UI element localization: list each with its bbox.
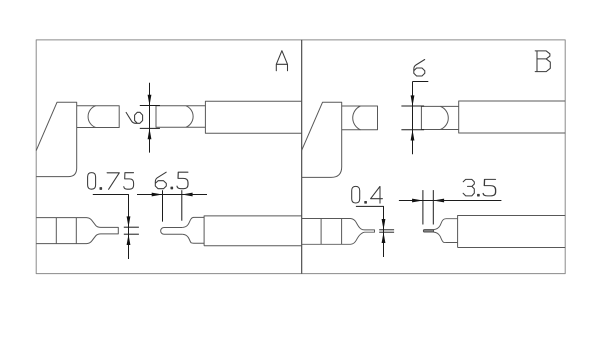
panel divider line (301, 40, 303, 274)
dimension 0.75 leader A (93, 195, 129, 260)
dimension 6 extension bottom B (401, 129, 424, 131)
spindle tip A (side view) (156, 106, 205, 127)
anvil holder division line 2 B (341, 219, 343, 245)
anvil holder division line 1 B (320, 219, 322, 245)
dimension 6 line A (149, 83, 151, 153)
dimension 6.5 line right A (182, 194, 207, 196)
spindle body A (top view) (204, 216, 302, 246)
dimension 0.4 arrow down B (382, 219, 386, 230)
dimension 3.5 arrow right B (412, 199, 423, 203)
dimension text 3.5 B (463, 179, 474, 196)
spindle tip arc A (186, 106, 193, 127)
spindle blade B (top view, filled) (423, 230, 433, 233)
micrometer frame section A (side view) (36, 102, 76, 176)
dimension 3.5 line right B (433, 200, 501, 202)
spindle blade A (top view, rounded end) (161, 228, 183, 235)
drawing border frame (36, 40, 565, 274)
dimension text 6 B (414, 60, 425, 77)
anvil tip B (side view) (342, 106, 378, 130)
dimension 0.4 extension bottom B (379, 231, 394, 233)
dimension 3.5 arrow left B (433, 199, 444, 203)
dimension 0.75 extension bottom A (124, 233, 139, 235)
dimension 0.4 arrow up B (382, 232, 386, 243)
spindle taper top B (434, 219, 458, 230)
spindle body B (side view) (459, 101, 566, 133)
micrometer frame section B (side view) (302, 102, 342, 177)
dimension 6 arrow down A (148, 95, 152, 106)
dimension 6 arrow up B (411, 130, 415, 141)
dimension 6 extension line top A (140, 105, 160, 107)
anvil tip A (side view) (77, 106, 120, 128)
dimension 6 arrow up A (148, 128, 152, 139)
dimension text 0.75 A (88, 173, 96, 190)
dimension 6 line B (412, 82, 414, 155)
dimension text 0.4 B (352, 186, 360, 203)
spindle body A (side view) (205, 101, 301, 133)
anvil tip arc B (353, 106, 361, 130)
dimension 0.4 leader B (356, 206, 384, 257)
dimension 0.4 extension top B (379, 229, 394, 231)
dimension 6 extension top B (401, 105, 424, 107)
anvil holder A (top view) (36, 218, 118, 244)
spindle tip arc B (440, 106, 448, 129)
dimension 6.5 arrow right A (152, 193, 163, 197)
label A (276, 51, 287, 71)
anvil holder B (top view) (302, 219, 375, 245)
dimension text 6 (rotated) A (126, 112, 143, 123)
dimension 3.5 extension line 2 B (432, 190, 434, 224)
dimension 0.75 extension top A (124, 226, 139, 228)
spindle taper bottom A (182, 234, 204, 243)
dimension 6.5 line left A (137, 194, 163, 196)
dimension 6.5 arrow left A (182, 193, 193, 197)
anvil tip arc A (88, 106, 96, 128)
spindle body B (top view) (458, 216, 566, 248)
label B (535, 51, 550, 72)
spindle taper bottom B (434, 232, 458, 242)
dimension 6 leader underline B (413, 81, 429, 83)
dimension 3.5 line middle B (423, 200, 433, 202)
dimension text 6.5 A (155, 172, 166, 189)
dimension 3.5 line left B (399, 200, 423, 202)
anvil holder division line 2 A (75, 218, 77, 244)
dimension 6 arrow down B (411, 95, 415, 106)
dimension 6.5 extension line 1 A (162, 190, 164, 221)
dimension 6 extension line bottom A (140, 127, 160, 129)
anvil holder division line 1 A (55, 218, 57, 244)
dimension 6.5 line middle A (163, 194, 182, 196)
dimension 6.5 extension line 2 A (181, 190, 183, 221)
dimension 3.5 extension line 1 B (422, 190, 424, 224)
dimension 0.75 arrow down A (127, 216, 131, 227)
dimension 0.75 arrow up A (127, 234, 131, 245)
spindle tip B (side view) (421, 106, 458, 129)
spindle taper top A (182, 217, 204, 227)
